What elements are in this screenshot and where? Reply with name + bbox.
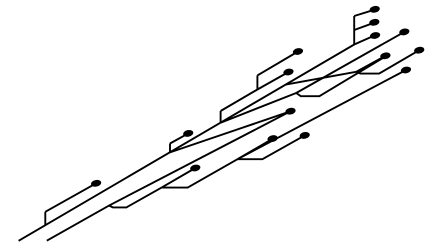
wire branch J9 horizontal tee to pad P10 [238,135,305,159]
pad P8 [190,164,202,173]
pad P11 [285,107,297,116]
wire branch to pad P3 [257,52,298,76]
wire trace2 jog arm with horizontal run to pad P14 [356,50,419,73]
wire stub3 vertical riser on trace1 [220,111,222,123]
wire branch Y2 jog with horizontal run to pad P15 [296,57,385,97]
pad P7 [369,31,381,40]
wire trace2 second bus line (lower-left to pad P11) [47,111,291,241]
pad P2 [182,129,194,138]
wire spur to pad P5 [354,10,374,16]
wire branch J9 through to pad P16 [238,70,407,159]
wire shallow branch to pad P11 [170,111,291,152]
wire branch chain to stub4 and pad P4 [221,72,289,111]
pad P9 [267,134,279,143]
wire branch from trace2 junction J2 jog to horizontal run [109,188,161,208]
wire trace2 through-arm to pad P15 [356,56,385,72]
pad P4 [283,68,295,77]
wire branch B1 to pad P1 [45,183,96,212]
pad P10 [299,131,311,140]
pad P15 [380,51,392,60]
pad P13 [399,28,411,37]
wire branch B2 to pad P2 [170,133,188,143]
pad P3 [292,47,304,56]
wire spur to pad P6 [354,23,374,30]
wire stub4 vertical riser [256,75,258,89]
wire branch J9 spur to pad P9 [238,139,273,159]
wire branch J8 horizontal tee to junction J9 [162,159,238,187]
pad P16 [400,66,412,75]
pad P1 [90,179,102,188]
wire trace1 main bus line (lower-left to pad P7) [19,35,376,241]
wire shallow branch from trace1 to junction Y5 [286,72,356,85]
wire stub2 vertical riser on trace1 [169,144,171,153]
wire stub5 tall vertical riser at top-right cluster [353,16,355,45]
pad P14 [413,46,425,55]
wire branch Y2 to pad P13 [296,32,404,93]
wire branch J8 to pad P8 [162,168,196,188]
pad P6 [369,18,381,27]
wire stub1 vertical riser on trace1 [44,212,46,226]
pad P5 [369,5,381,14]
wire shallow branch from stub3 base to junction Y2 [221,93,297,123]
